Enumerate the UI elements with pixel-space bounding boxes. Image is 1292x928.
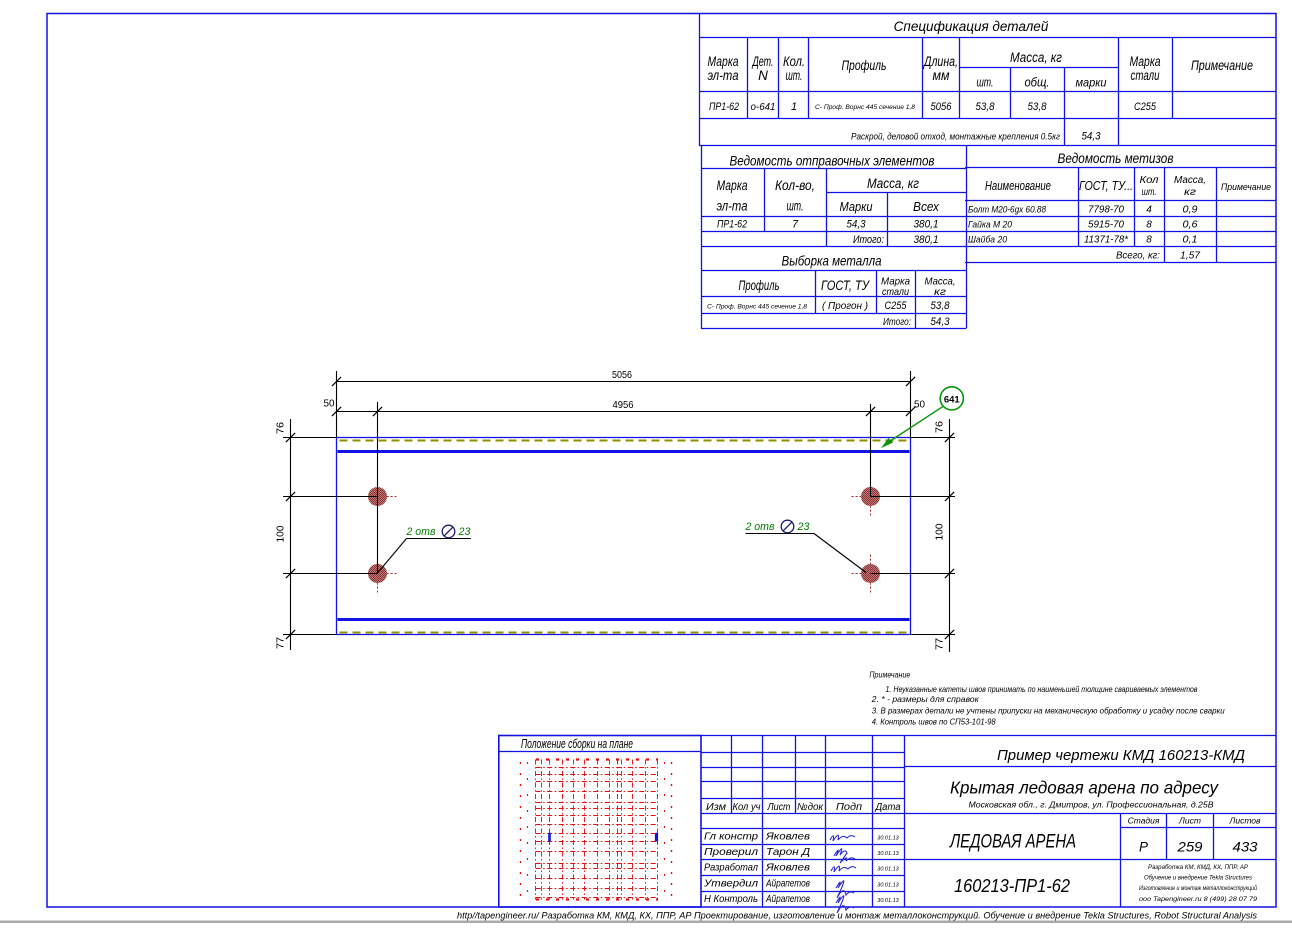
svg-text:Выборка металла: Выборка металла	[782, 253, 882, 269]
svg-text:160213-ПР1-62: 160213-ПР1-62	[954, 875, 1071, 896]
svg-text:Ведомость отправочных элементо: Ведомость отправочных элементов	[730, 153, 935, 169]
svg-text:2 отв: 2 отв	[406, 526, 436, 538]
stadiya list listov	[1128, 816, 1261, 855]
svg-text:http//tapengineer.ru/ Разрабо: http//tapengineer.ru/ Разработка КМ, КМД…	[457, 911, 1257, 922]
svg-text:Кол.: Кол.	[783, 54, 805, 69]
svg-text:Итого:: Итого:	[853, 234, 884, 246]
titleblock: polozhenie sborki box	[499, 736, 701, 908]
svg-text:шт.: шт.	[787, 199, 804, 214]
title: Vyborka metalla	[782, 253, 882, 269]
label 2 otv d23 right	[745, 520, 866, 572]
svg-text:53,8: 53,8	[931, 300, 951, 312]
vyborka data row	[707, 300, 950, 312]
svg-text:Дет.: Дет.	[751, 54, 773, 69]
svg-text:Лист: Лист	[1178, 816, 1201, 826]
titleblock signature rows	[703, 831, 900, 906]
svg-text:Пример чертежи КМД 160213-КМД: Пример чертежи КМД 160213-КМД	[997, 747, 1245, 764]
svg-text:Раскрой, деловой отход, монтаж: Раскрой, деловой отход, монтажные крепле…	[851, 132, 1060, 143]
svg-text:Подп: Подп	[836, 802, 863, 813]
svg-text:76: 76	[275, 422, 287, 434]
svg-text:53,8: 53,8	[976, 101, 996, 113]
svg-text:23: 23	[797, 521, 811, 533]
svg-text:77: 77	[275, 637, 287, 649]
svg-text:Положение сборки на плане: Положение сборки на плане	[521, 737, 633, 751]
svg-text:Яковлев: Яковлев	[765, 831, 811, 843]
svg-text:Кол: Кол	[1140, 174, 1159, 186]
metizov row shayba	[968, 235, 1198, 246]
svg-text:4: 4	[1146, 205, 1152, 216]
table: Vedomost otpravochnykh elementov grid	[701, 146, 967, 329]
sheet name ledovaya arena	[948, 832, 1076, 853]
blue signatures	[830, 835, 856, 913]
bottom info line	[457, 911, 1257, 922]
svg-text:77: 77	[934, 638, 946, 650]
svg-text:ГОСТ, ТУ...: ГОСТ, ТУ...	[1079, 179, 1133, 193]
metizov row bolt	[968, 205, 1198, 216]
notes primechanie	[869, 669, 1225, 726]
svg-text:№док: №док	[797, 802, 824, 813]
svg-text:ГОСТ, ТУ: ГОСТ, ТУ	[821, 278, 870, 293]
svg-text:эл-та: эл-та	[708, 68, 739, 83]
svg-text:Ведомость метизов: Ведомость метизов	[1058, 150, 1174, 166]
svg-text:Айрапетов: Айрапетов	[765, 893, 810, 905]
svg-text:Тарон Д: Тарон Д	[766, 846, 811, 858]
svg-text:Примечание: Примечание	[1191, 58, 1253, 73]
svg-text:ПР1-62: ПР1-62	[709, 101, 739, 113]
svg-text:54,3: 54,3	[1082, 131, 1102, 143]
right dimension chain 76 100 77	[934, 419, 955, 652]
svg-text:Масса, кг: Масса, кг	[1010, 50, 1062, 65]
svg-text:Наименование: Наименование	[985, 179, 1051, 193]
otpravochnye itogo row	[853, 234, 939, 246]
hole row extension lines right	[871, 438, 956, 635]
spec table data row	[709, 101, 1157, 113]
svg-text:1. Неуказанные катеты швов при: 1. Неуказанные катеты швов принимать по …	[886, 684, 1198, 694]
hole A2 d23	[359, 555, 397, 593]
svg-text:эл-та: эл-та	[717, 199, 748, 214]
table: Vyborka metalla grid	[701, 271, 966, 329]
table: Vedomost metizov grid	[965, 167, 1276, 263]
window bottom gray strip	[0, 921, 1292, 924]
svg-text:Дата: Дата	[875, 802, 901, 813]
svg-text:Разработка КМ, КМД, КХ, ППР, А: Разработка КМ, КМД, КХ, ППР, АР	[1148, 864, 1249, 871]
detail balloon 641	[881, 387, 963, 448]
plate flange line top (thick)	[338, 450, 910, 453]
svg-text:Масса, кг: Масса, кг	[867, 176, 919, 191]
svg-text:380,1: 380,1	[914, 234, 939, 246]
svg-text:Всех: Всех	[913, 199, 939, 214]
svg-text:Изготовление и монтаж металлок: Изготовление и монтаж металлоконструкций	[1139, 885, 1257, 892]
svg-text:Примечание: Примечание	[1221, 182, 1271, 193]
hole B1 d23	[852, 478, 890, 516]
svg-text:Лист: Лист	[767, 802, 791, 813]
svg-text:мм: мм	[933, 68, 950, 83]
svg-text:4. Контроль швов по СП53-101-9: 4. Контроль швов по СП53-101-98	[872, 717, 996, 727]
svg-text:С- Проф. Ворнс 445 сечение 1,8: С- Проф. Ворнс 445 сечение 1,8	[815, 104, 915, 111]
dimension line 4956 with 50 ends	[324, 398, 926, 417]
svg-text:53,8: 53,8	[1028, 101, 1048, 113]
plate flange line bottom (thick)	[338, 618, 910, 621]
svg-text:Марка: Марка	[1130, 54, 1161, 69]
svg-text:марки: марки	[1076, 76, 1107, 90]
svg-text:76: 76	[934, 421, 946, 433]
hole row extension lines left	[283, 438, 378, 635]
svg-text:5056: 5056	[612, 369, 632, 381]
titleblock header row izm	[706, 802, 901, 813]
svg-text:0,6: 0,6	[1183, 220, 1198, 231]
svg-text:ЛЕДОВАЯ АРЕНА: ЛЕДОВАЯ АРЕНА	[948, 832, 1076, 853]
svg-text:( Прогон ): ( Прогон )	[822, 300, 868, 312]
hole column extension line right	[870, 404, 872, 497]
plan blue position marks	[550, 833, 657, 842]
spec table headers	[708, 50, 1254, 90]
svg-text:Листов: Листов	[1229, 816, 1262, 826]
svg-text:Р: Р	[1139, 840, 1148, 855]
table: Spetsifikatsiya detaley grid	[699, 14, 1276, 146]
svg-text:Масса,: Масса,	[1174, 174, 1206, 186]
svg-text:1: 1	[791, 101, 797, 113]
svg-text:Крытая ледовая арена по адресу: Крытая ледовая арена по адресу	[950, 778, 1219, 798]
svg-text:стали: стали	[882, 286, 909, 298]
svg-text:о-641: о-641	[751, 101, 776, 113]
svg-text:Утвердил: Утвердил	[703, 877, 758, 889]
hidden edge dashed top	[340, 440, 908, 442]
svg-text:Профиль: Профиль	[842, 58, 887, 73]
left dimension chain 76 100 77	[275, 419, 296, 650]
svg-text:стали: стали	[1131, 68, 1160, 83]
vyborka headers	[739, 276, 956, 299]
svg-text:общ.: общ.	[1025, 75, 1050, 90]
svg-text:Обучение и внедрение Tekla Str: Обучение и внедрение Tekla Structures	[1144, 875, 1252, 882]
svg-text:259: 259	[1176, 840, 1203, 855]
svg-text:7: 7	[792, 219, 799, 231]
svg-text:0,1: 0,1	[1183, 235, 1198, 246]
hole B2 d23	[852, 555, 890, 593]
metizov headers	[985, 174, 1271, 198]
svg-text:Айрапетов: Айрапетов	[765, 877, 810, 889]
svg-text:3. В размерах детали не учтены: 3. В размерах детали не учтены припуски …	[872, 706, 1225, 716]
svg-text:Марки: Марки	[840, 199, 873, 214]
svg-text:2 отв: 2 отв	[745, 521, 775, 533]
plan grid red	[521, 760, 672, 900]
metizov vsego row	[1116, 250, 1201, 262]
svg-text:Изм: Изм	[706, 802, 726, 813]
svg-text:N: N	[758, 68, 768, 83]
firm info small	[1139, 864, 1258, 903]
svg-text:30.01.13: 30.01.13	[877, 851, 899, 857]
svg-text:С- Проф. Ворнс 445 сечение 1,8: С- Проф. Ворнс 445 сечение 1,8	[707, 304, 807, 311]
svg-text:2. * - размеры для справок: 2. * - размеры для справок	[871, 694, 980, 704]
svg-text:4956: 4956	[613, 399, 634, 411]
doc code line	[997, 747, 1245, 764]
svg-text:8: 8	[1146, 235, 1152, 246]
svg-text:Болт М20-6gх 60.88: Болт М20-6gх 60.88	[968, 205, 1047, 216]
hidden edge dashed bottom	[340, 632, 908, 634]
titleblock right grid	[904, 767, 1276, 908]
svg-text:100: 100	[934, 523, 946, 540]
svg-text:кг: кг	[1184, 186, 1196, 198]
drawing number	[954, 875, 1071, 896]
svg-text:Шайба 20: Шайба 20	[968, 235, 1008, 246]
svg-text:50: 50	[324, 398, 335, 410]
otpravochnye data row	[717, 219, 939, 231]
table title: Spetsifikatsiya detaley	[894, 19, 1049, 34]
title: Vedomost metizov	[1058, 150, 1174, 166]
svg-text:Марка: Марка	[708, 54, 739, 69]
svg-text:1,57: 1,57	[1180, 250, 1201, 262]
svg-text:кг: кг	[934, 286, 946, 298]
svg-text:50: 50	[914, 399, 925, 411]
svg-text:шт.: шт.	[786, 68, 803, 83]
svg-text:шт.: шт.	[1142, 186, 1157, 198]
svg-text:Московская обл., г. Дмитров, у: Московская обл., г. Дмитров, ул. Професс…	[969, 801, 1215, 810]
svg-text:Кол-во,: Кол-во,	[775, 178, 815, 193]
svg-text:Профиль: Профиль	[739, 278, 780, 293]
svg-text:23: 23	[458, 526, 472, 538]
plate outline PR1-62	[337, 438, 911, 635]
svg-text:Проверил: Проверил	[704, 846, 758, 858]
svg-text:100: 100	[275, 525, 287, 542]
svg-text:380,1: 380,1	[914, 219, 939, 231]
svg-text:Гл констр: Гл констр	[704, 831, 758, 843]
svg-text:С255: С255	[885, 300, 908, 312]
svg-text:54,3: 54,3	[847, 219, 867, 231]
svg-text:7798-70: 7798-70	[1088, 205, 1124, 216]
svg-text:Спецификация деталей: Спецификация деталей	[894, 19, 1049, 34]
metizov row gayka	[968, 220, 1198, 231]
svg-text:Итого:: Итого:	[883, 317, 911, 328]
svg-text:433: 433	[1233, 840, 1259, 855]
svg-text:11371-78*: 11371-78*	[1084, 235, 1129, 246]
svg-text:30.01.13: 30.01.13	[877, 836, 899, 842]
dim extension verticals from plate corners	[337, 371, 911, 438]
svg-text:Н Контроль: Н Контроль	[704, 893, 758, 905]
otpravochnye headers	[717, 176, 940, 214]
svg-text:Марка: Марка	[717, 178, 748, 193]
svg-text:Яковлев: Яковлев	[765, 862, 811, 874]
titleblock main grid	[701, 736, 1276, 908]
svg-text:30.01.13: 30.01.13	[877, 867, 899, 873]
svg-text:Длина,: Длина,	[922, 54, 958, 69]
svg-text:0,9: 0,9	[1183, 205, 1198, 216]
svg-text:Примечание: Примечание	[869, 669, 910, 679]
svg-text:Стадия: Стадия	[1128, 816, 1160, 826]
hole A1 d23	[359, 478, 397, 516]
svg-text:ооо Tapengineer.ru 8 (499: ооо Tapengineer.ru 8 (499) 28 07 79	[1139, 896, 1258, 903]
svg-text:30.01.13: 30.01.13	[877, 898, 899, 904]
svg-text:5056: 5056	[931, 101, 953, 113]
svg-text:641: 641	[944, 394, 961, 405]
title: Vedomost otpravochnykh elementov	[730, 153, 935, 169]
label 2 otv d23 left	[378, 525, 472, 573]
svg-text:Гайка М 20: Гайка М 20	[968, 220, 1013, 231]
dimension line 5056	[332, 369, 915, 386]
spec table waste row	[851, 131, 1101, 143]
svg-text:5915-70: 5915-70	[1088, 220, 1124, 231]
hole column extension line left	[377, 402, 379, 574]
object name	[950, 778, 1219, 810]
vyborka itogo row	[883, 316, 950, 328]
svg-text:8: 8	[1146, 220, 1152, 231]
svg-text:Разработал: Разработал	[704, 862, 758, 874]
svg-text:шт.: шт.	[977, 75, 994, 90]
svg-text:ПР1-62: ПР1-62	[717, 219, 747, 231]
svg-text:Всего, кг:: Всего, кг:	[1116, 251, 1160, 262]
svg-text:54,3: 54,3	[931, 316, 951, 328]
svg-text:Кол уч: Кол уч	[733, 802, 761, 813]
svg-text:С255: С255	[1134, 101, 1157, 113]
svg-text:30.01.13: 30.01.13	[877, 882, 899, 888]
